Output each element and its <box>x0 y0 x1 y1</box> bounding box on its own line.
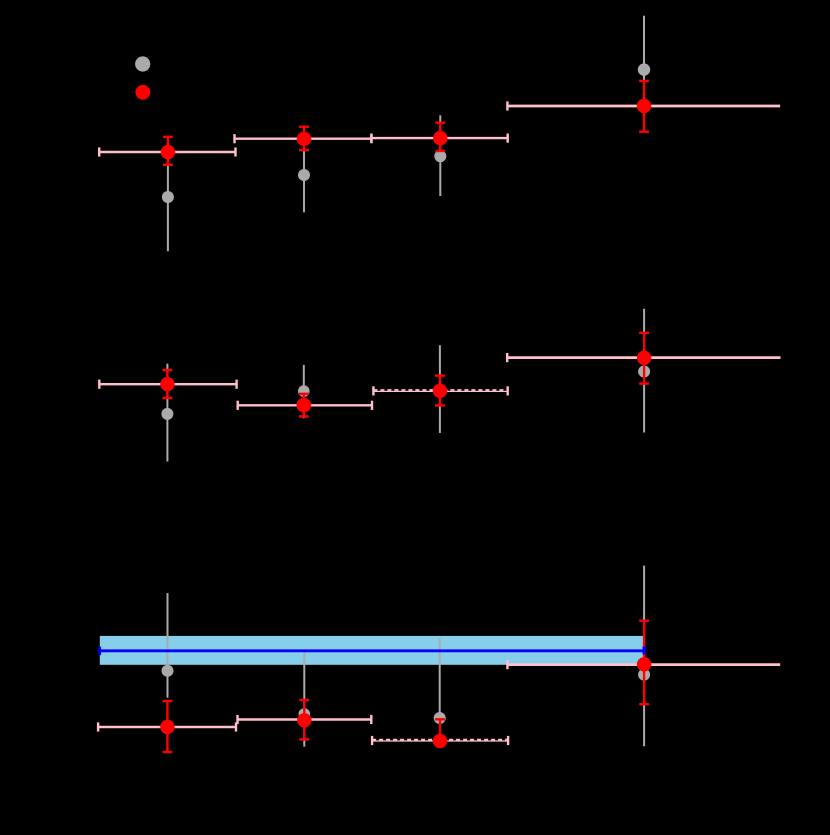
pink x-error bars panel2 <box>99 353 780 410</box>
pink x-error bars panel1 <box>99 101 780 156</box>
gray series panel2 <box>161 309 650 462</box>
pink x-error bars panel3 <box>98 660 780 745</box>
skyblue band <box>100 636 645 665</box>
red series panel3 <box>160 621 651 752</box>
gray series panel1 <box>162 16 650 252</box>
blue theory line with caps <box>100 647 644 656</box>
legend gray marker <box>135 56 150 71</box>
gray series panel3 <box>162 566 651 747</box>
legend red marker <box>135 85 150 100</box>
red series panel1 <box>161 81 652 165</box>
red series panel2 <box>160 333 651 417</box>
blue right cap on top <box>642 647 645 655</box>
